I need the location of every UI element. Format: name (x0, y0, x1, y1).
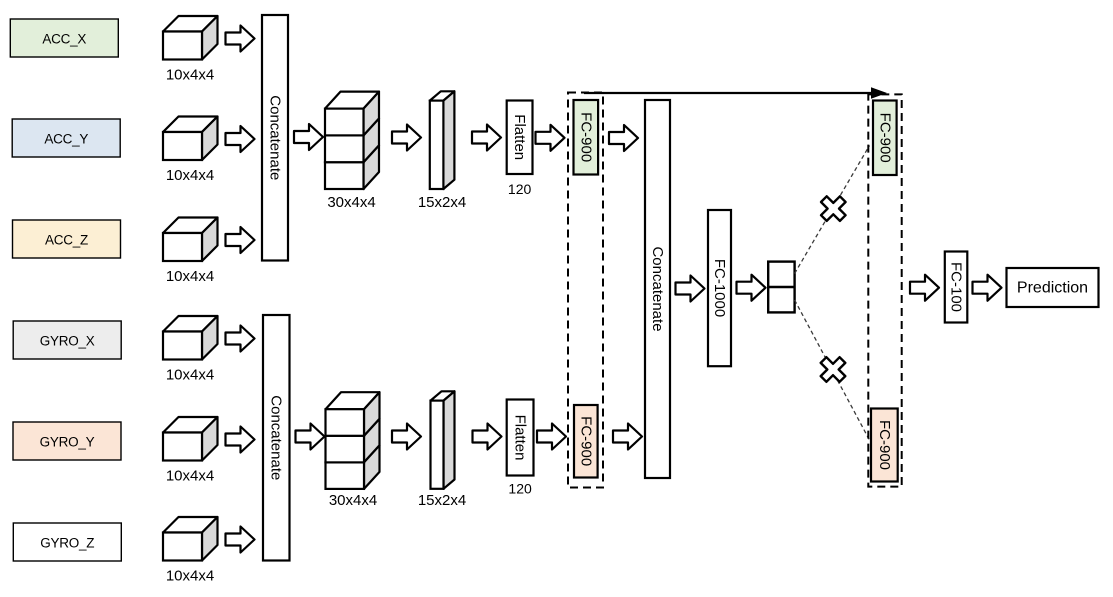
svg-text:10x4x4: 10x4x4 (166, 167, 214, 184)
svg-text:FC-900: FC-900 (577, 112, 594, 162)
svg-text:30x4x4: 30x4x4 (327, 194, 375, 211)
svg-text:10x4x4: 10x4x4 (166, 268, 214, 285)
svg-text:ACC_X: ACC_X (42, 32, 86, 47)
svg-text:FC-900: FC-900 (876, 420, 893, 470)
svg-text:FC-900: FC-900 (577, 416, 594, 466)
svg-text:Concatenate: Concatenate (649, 246, 666, 331)
svg-text:Prediction: Prediction (1017, 279, 1088, 296)
svg-text:GYRO_Z: GYRO_Z (40, 536, 94, 551)
svg-text:GYRO_Y: GYRO_Y (40, 435, 95, 450)
svg-text:ACC_Y: ACC_Y (44, 132, 88, 147)
svg-text:15x2x4: 15x2x4 (418, 492, 466, 509)
svg-text:10x4x4: 10x4x4 (166, 568, 214, 585)
svg-text:FC-1000: FC-1000 (711, 259, 728, 317)
svg-text:FC-900: FC-900 (876, 113, 893, 163)
svg-text:GYRO_X: GYRO_X (40, 334, 95, 349)
svg-text:10x4x4: 10x4x4 (166, 468, 214, 485)
svg-text:Concatenate: Concatenate (268, 395, 285, 480)
svg-text:Flatten: Flatten (512, 415, 529, 461)
svg-text:10x4x4: 10x4x4 (166, 367, 214, 384)
svg-text:FC-100: FC-100 (948, 262, 965, 312)
svg-text:Concatenate: Concatenate (267, 95, 284, 180)
svg-text:Flatten: Flatten (511, 114, 528, 160)
svg-text:ACC_Z: ACC_Z (45, 233, 88, 248)
svg-text:15x2x4: 15x2x4 (418, 194, 466, 211)
svg-text:120: 120 (508, 181, 532, 197)
svg-text:120: 120 (508, 481, 532, 497)
svg-text:30x4x4: 30x4x4 (329, 492, 377, 509)
svg-text:10x4x4: 10x4x4 (166, 67, 214, 84)
